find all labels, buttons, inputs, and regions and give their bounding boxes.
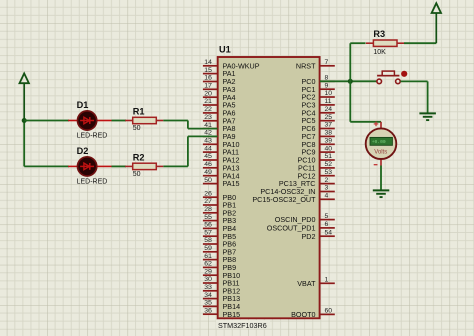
pin 43 PA10 bbox=[203, 138, 240, 149]
wire rail to D1 bbox=[24, 120, 69, 122]
svg-text:36: 36 bbox=[204, 307, 212, 314]
pin 56 PB4 bbox=[203, 222, 236, 233]
svg-text:55: 55 bbox=[204, 214, 212, 221]
svg-text:11: 11 bbox=[325, 98, 332, 105]
svg-text:+0.00: +0.00 bbox=[372, 139, 386, 145]
svg-text:46: 46 bbox=[204, 161, 212, 168]
svg-text:R3: R3 bbox=[373, 29, 385, 39]
svg-text:57: 57 bbox=[204, 229, 212, 236]
svg-text:10K: 10K bbox=[373, 49, 386, 56]
svg-text:34: 34 bbox=[204, 292, 212, 299]
pin 6 OSCOUT_PD1 bbox=[267, 221, 335, 232]
value label LED-RED (D2) bbox=[77, 178, 108, 185]
value label LED-RED (D1) bbox=[77, 132, 108, 139]
svg-text:62: 62 bbox=[204, 261, 212, 268]
pin 9 PC1 bbox=[302, 82, 335, 93]
pin 55 PB3 bbox=[203, 214, 236, 225]
label R3 bbox=[373, 29, 385, 39]
pin 11 PC3 bbox=[302, 98, 335, 109]
svg-text:LED-RED: LED-RED bbox=[77, 132, 108, 139]
svg-text:45: 45 bbox=[204, 153, 212, 160]
push button SW1 bbox=[377, 71, 400, 84]
value label 10K (R3) bbox=[373, 49, 386, 56]
wire button to ground bbox=[400, 81, 427, 113]
node junction left rail / D1 bbox=[22, 118, 27, 123]
svg-text:51: 51 bbox=[325, 153, 333, 160]
svg-text:29: 29 bbox=[204, 268, 212, 275]
svg-text:R1: R1 bbox=[133, 106, 145, 116]
pin 2 PC13_RTC bbox=[279, 177, 335, 188]
svg-text:R2: R2 bbox=[133, 152, 145, 162]
pin 54 PD2 bbox=[302, 229, 335, 240]
pin 59 PB7 bbox=[203, 245, 236, 256]
button actuator red dot bbox=[401, 71, 407, 77]
svg-text:PC15-OSC32_OUT: PC15-OSC32_OUT bbox=[252, 195, 316, 204]
pin 39 PC8 bbox=[302, 138, 335, 149]
svg-text:16: 16 bbox=[204, 75, 212, 82]
node junction PC0 / R3 / voltmeter bbox=[348, 79, 353, 84]
wire left rail vertical bbox=[23, 121, 25, 167]
svg-text:24: 24 bbox=[325, 106, 333, 113]
wire D2 to R2 bbox=[112, 165, 127, 167]
pin 45 PA12 bbox=[203, 153, 240, 164]
pin 51 PC10 bbox=[298, 153, 335, 164]
svg-text:61: 61 bbox=[204, 253, 212, 260]
value label STM32F103R6 bbox=[216, 320, 270, 330]
pin 57 PB5 bbox=[203, 229, 236, 240]
resistor R2 bbox=[125, 163, 163, 169]
pin 4 PC15-OSC32_OUT bbox=[252, 193, 334, 204]
wire D1 to R1 bbox=[112, 120, 127, 122]
svg-text:59: 59 bbox=[204, 245, 212, 252]
svg-text:35: 35 bbox=[204, 300, 212, 307]
pin 34 PB13 bbox=[203, 292, 240, 303]
voltmeter Volts bbox=[366, 122, 397, 166]
svg-text:10: 10 bbox=[325, 90, 333, 97]
pin 3 PC14-OSC32_IN bbox=[260, 185, 334, 196]
wire R3 left bbox=[350, 42, 365, 44]
svg-text:U1: U1 bbox=[219, 45, 231, 55]
pin 61 PB8 bbox=[203, 253, 236, 264]
svg-text:22: 22 bbox=[204, 106, 212, 113]
pin 15 PA1 bbox=[203, 67, 236, 78]
svg-text:37: 37 bbox=[325, 122, 333, 129]
pin 41 PA8 bbox=[203, 122, 236, 133]
svg-text:Volts: Volts bbox=[374, 149, 387, 155]
ground (voltmeter) bbox=[373, 190, 390, 197]
pin 28 PB2 bbox=[203, 206, 236, 217]
svg-text:15: 15 bbox=[204, 67, 212, 74]
pin 33 PB12 bbox=[203, 284, 240, 295]
ground (button) bbox=[419, 113, 436, 120]
svg-text:38: 38 bbox=[325, 130, 333, 137]
pin 40 PC9 bbox=[302, 145, 335, 156]
wire R3 branch vertical bbox=[349, 43, 351, 122]
pin 8 PC0 bbox=[302, 75, 335, 86]
svg-text:PB15: PB15 bbox=[223, 310, 241, 319]
pin 21 PA5 bbox=[203, 98, 236, 109]
pin 46 PA13 bbox=[203, 161, 240, 172]
pin 7 NRST bbox=[296, 59, 335, 70]
power symbol VCC right bbox=[432, 3, 441, 13]
wire R2 to PA9 bbox=[163, 136, 217, 166]
pin 27 PB1 bbox=[203, 198, 236, 209]
svg-text:60: 60 bbox=[325, 308, 333, 315]
svg-text:D1: D1 bbox=[77, 100, 89, 110]
svg-text:44: 44 bbox=[204, 145, 212, 152]
svg-text:50: 50 bbox=[133, 125, 141, 132]
svg-text:53: 53 bbox=[325, 169, 333, 176]
label U1 bbox=[219, 45, 231, 55]
wire R3 to VCC bbox=[404, 13, 436, 43]
svg-text:43: 43 bbox=[204, 138, 212, 145]
pin 20 PA4 bbox=[203, 90, 236, 101]
svg-text:14: 14 bbox=[204, 59, 212, 66]
wire voltmeter to ground bbox=[380, 166, 382, 191]
svg-text:20: 20 bbox=[204, 90, 212, 97]
pin 49 PA14 bbox=[203, 169, 240, 180]
svg-text:30: 30 bbox=[204, 276, 212, 283]
svg-text:7: 7 bbox=[325, 59, 329, 66]
svg-text:23: 23 bbox=[204, 114, 212, 121]
svg-text:25: 25 bbox=[325, 114, 333, 121]
power symbol VCC left bbox=[20, 73, 29, 120]
svg-text:52: 52 bbox=[325, 161, 333, 168]
svg-text:50: 50 bbox=[133, 171, 141, 178]
svg-text:4: 4 bbox=[325, 193, 329, 200]
svg-text:49: 49 bbox=[204, 169, 212, 176]
svg-text:5: 5 bbox=[325, 213, 329, 220]
svg-text:6: 6 bbox=[325, 221, 329, 228]
LED D1 bbox=[68, 111, 112, 130]
pin 29 PB10 bbox=[203, 268, 240, 279]
label D1 bbox=[77, 100, 89, 110]
label D2 bbox=[77, 146, 89, 156]
voltmeter minus terminal bbox=[374, 164, 378, 166]
svg-text:39: 39 bbox=[325, 138, 333, 145]
label R2 bbox=[133, 152, 145, 162]
value label 50 (R2) bbox=[133, 171, 141, 178]
pin 23 PA7 bbox=[203, 114, 236, 125]
wire R1 to PA8 bbox=[163, 121, 217, 129]
svg-text:21: 21 bbox=[204, 98, 212, 105]
svg-text:VBAT: VBAT bbox=[297, 279, 316, 288]
pin 16 PA2 bbox=[203, 75, 236, 86]
svg-text:56: 56 bbox=[204, 222, 212, 229]
svg-text:17: 17 bbox=[204, 83, 212, 90]
svg-text:26: 26 bbox=[204, 190, 212, 197]
value label 50 (R1) bbox=[133, 125, 141, 132]
wire PC0 to button bbox=[320, 80, 377, 82]
pin 44 PA11 bbox=[203, 145, 239, 156]
resistor R3 bbox=[366, 40, 404, 46]
pin 52 PC11 bbox=[298, 161, 335, 172]
svg-text:BOOT0: BOOT0 bbox=[291, 310, 315, 319]
pin 36 PB15 bbox=[203, 307, 240, 318]
op-amp U1 body (STM32F103R6 MCU) bbox=[218, 57, 320, 318]
LED D2 bbox=[68, 157, 112, 176]
pin 10 PC2 bbox=[302, 90, 335, 101]
svg-text:58: 58 bbox=[204, 237, 212, 244]
svg-text:LED-RED: LED-RED bbox=[77, 178, 108, 185]
svg-text:D2: D2 bbox=[77, 146, 89, 156]
svg-text:NRST: NRST bbox=[296, 61, 316, 70]
svg-text:33: 33 bbox=[204, 284, 212, 291]
pin 30 PB11 bbox=[203, 276, 240, 287]
svg-text:28: 28 bbox=[204, 206, 212, 213]
pin 1 VBAT bbox=[297, 277, 335, 288]
svg-text:54: 54 bbox=[325, 229, 333, 236]
svg-text:PD2: PD2 bbox=[302, 232, 316, 241]
pin 26 PB0 bbox=[203, 190, 236, 201]
pin 25 PC5 bbox=[302, 114, 335, 125]
voltmeter plus terminal bbox=[374, 122, 379, 127]
pin 38 PC7 bbox=[302, 130, 335, 141]
svg-text:2: 2 bbox=[325, 177, 329, 184]
label R1 bbox=[133, 106, 145, 116]
pin 14 PA0-WKUP bbox=[203, 59, 260, 70]
svg-text:27: 27 bbox=[204, 198, 212, 205]
pin 35 PB14 bbox=[203, 300, 240, 311]
svg-text:40: 40 bbox=[325, 145, 333, 152]
pin 53 PC12 bbox=[298, 169, 335, 180]
svg-text:1: 1 bbox=[325, 277, 329, 284]
svg-text:50: 50 bbox=[204, 177, 212, 184]
svg-text:9: 9 bbox=[325, 82, 329, 89]
pin 24 PC4 bbox=[302, 106, 335, 117]
pin 37 PC6 bbox=[302, 122, 335, 133]
svg-text:3: 3 bbox=[325, 185, 329, 192]
pin 5 OSCIN_PD0 bbox=[275, 213, 335, 224]
pin 62 PB9 bbox=[203, 261, 236, 272]
label Volts bbox=[374, 149, 387, 155]
pin 50 PA15 bbox=[203, 177, 240, 188]
pin 22 PA6 bbox=[203, 106, 236, 117]
pin 60 BOOT0 bbox=[291, 308, 335, 319]
pin 42 PA9 bbox=[203, 130, 236, 141]
pin 17 PA3 bbox=[203, 83, 236, 94]
svg-text:PA15: PA15 bbox=[223, 179, 240, 188]
svg-text:STM32F103R6: STM32F103R6 bbox=[218, 321, 267, 330]
pin 58 PB6 bbox=[203, 237, 236, 248]
wire to voltmeter + bbox=[350, 121, 381, 123]
wire rail to D2 bbox=[24, 165, 69, 167]
resistor R1 bbox=[125, 117, 163, 123]
